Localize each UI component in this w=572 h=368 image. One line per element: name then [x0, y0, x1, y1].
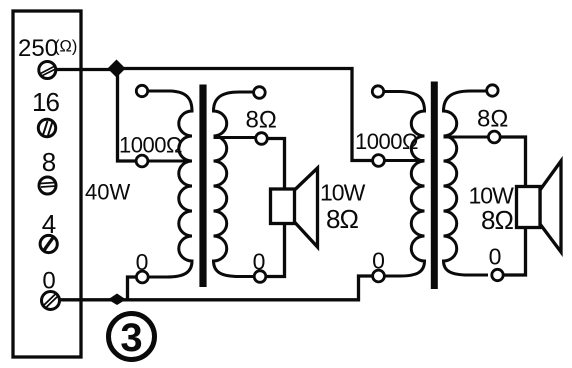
node A (top junction dot) [108, 60, 126, 78]
transformer T1 secondary 8-ohm tap terminal [256, 133, 268, 145]
svg-text:0: 0 [136, 249, 149, 275]
terminal 8 ohm [39, 177, 56, 194]
svg-text:8Ω: 8Ω [477, 106, 508, 133]
node B (bottom junction dot) [108, 294, 126, 306]
transformer T2 secondary coil [444, 91, 489, 275]
wire: T2 secondary to speaker LS2 [500, 137, 526, 275]
wire: T2 secondary 8-ohm tap stub [444, 136, 489, 139]
terminal 0 ohm [42, 292, 60, 310]
svg-text:0: 0 [489, 244, 502, 270]
speaker LS2 [517, 161, 562, 252]
transformer T2 primary coil [384, 92, 425, 277]
svg-text:8Ω: 8Ω [481, 205, 513, 235]
wire: 250 terminal to top bus [56, 68, 117, 71]
transformer T1 secondary 0 terminal [254, 271, 266, 283]
amplifier output terminal box [13, 11, 81, 357]
transformer T2 secondary top terminal (open) [487, 85, 498, 96]
transformer T1 primary 0 terminal [136, 271, 148, 283]
wire: T1 secondary to speaker LS1 [266, 139, 285, 277]
svg-text:0: 0 [253, 249, 266, 275]
wire: T1 secondary 8-ohm tap stub [214, 136, 257, 139]
wire: T2 primary tap stub [384, 159, 425, 162]
terminal 4 ohm [40, 235, 57, 252]
wire: 0 terminal bottom bus to transformer T2 0 terminal [59, 276, 372, 300]
svg-text:3: 3 [120, 316, 142, 360]
svg-text:0: 0 [372, 248, 385, 274]
transformer T2 primary 1000-ohm tap terminal [373, 155, 385, 167]
svg-text:16: 16 [32, 87, 59, 117]
transformer T1 secondary top terminal (open) [254, 87, 266, 99]
speaker LS1 [271, 168, 318, 247]
transformer T2 primary top terminal (open) [372, 86, 383, 97]
svg-text:10W: 10W [320, 180, 366, 206]
svg-text:250: 250 [18, 35, 58, 62]
svg-text:8: 8 [42, 147, 56, 177]
transformer T1 primary top terminal (open) [136, 85, 147, 96]
transformer T1 core [199, 85, 206, 288]
svg-text:1000Ω: 1000Ω [355, 129, 418, 154]
transformer T1 primary 1000-ohm tap terminal [136, 155, 148, 167]
svg-text:8Ω: 8Ω [246, 107, 277, 134]
svg-text:1000Ω: 1000Ω [119, 133, 182, 158]
transformer T1 secondary coil [214, 92, 255, 277]
wire: top bus to transformer T2 1000-ohm tap [117, 69, 372, 161]
svg-text:40W: 40W [85, 180, 130, 205]
wire: T1 primary tap stub [148, 160, 192, 163]
terminal 250 ohm [39, 62, 56, 79]
wire: top bus down to transformer T1 1000-ohm tap [118, 69, 137, 162]
terminal 16 ohm [38, 119, 55, 136]
figure number 3 [109, 314, 155, 361]
transformer T2 secondary 0 terminal [492, 269, 503, 280]
transformer T1 primary coil [148, 91, 193, 277]
transformer T2 primary 0 terminal [373, 270, 385, 282]
wire: transformer T1 primary 0 drop [128, 277, 137, 299]
transformer T2 core [431, 82, 438, 290]
label 250(Ω) [18, 35, 77, 62]
svg-text:(Ω): (Ω) [54, 38, 77, 56]
svg-text:8Ω: 8Ω [326, 204, 358, 234]
transformer T2 secondary 8-ohm tap terminal [488, 131, 500, 143]
